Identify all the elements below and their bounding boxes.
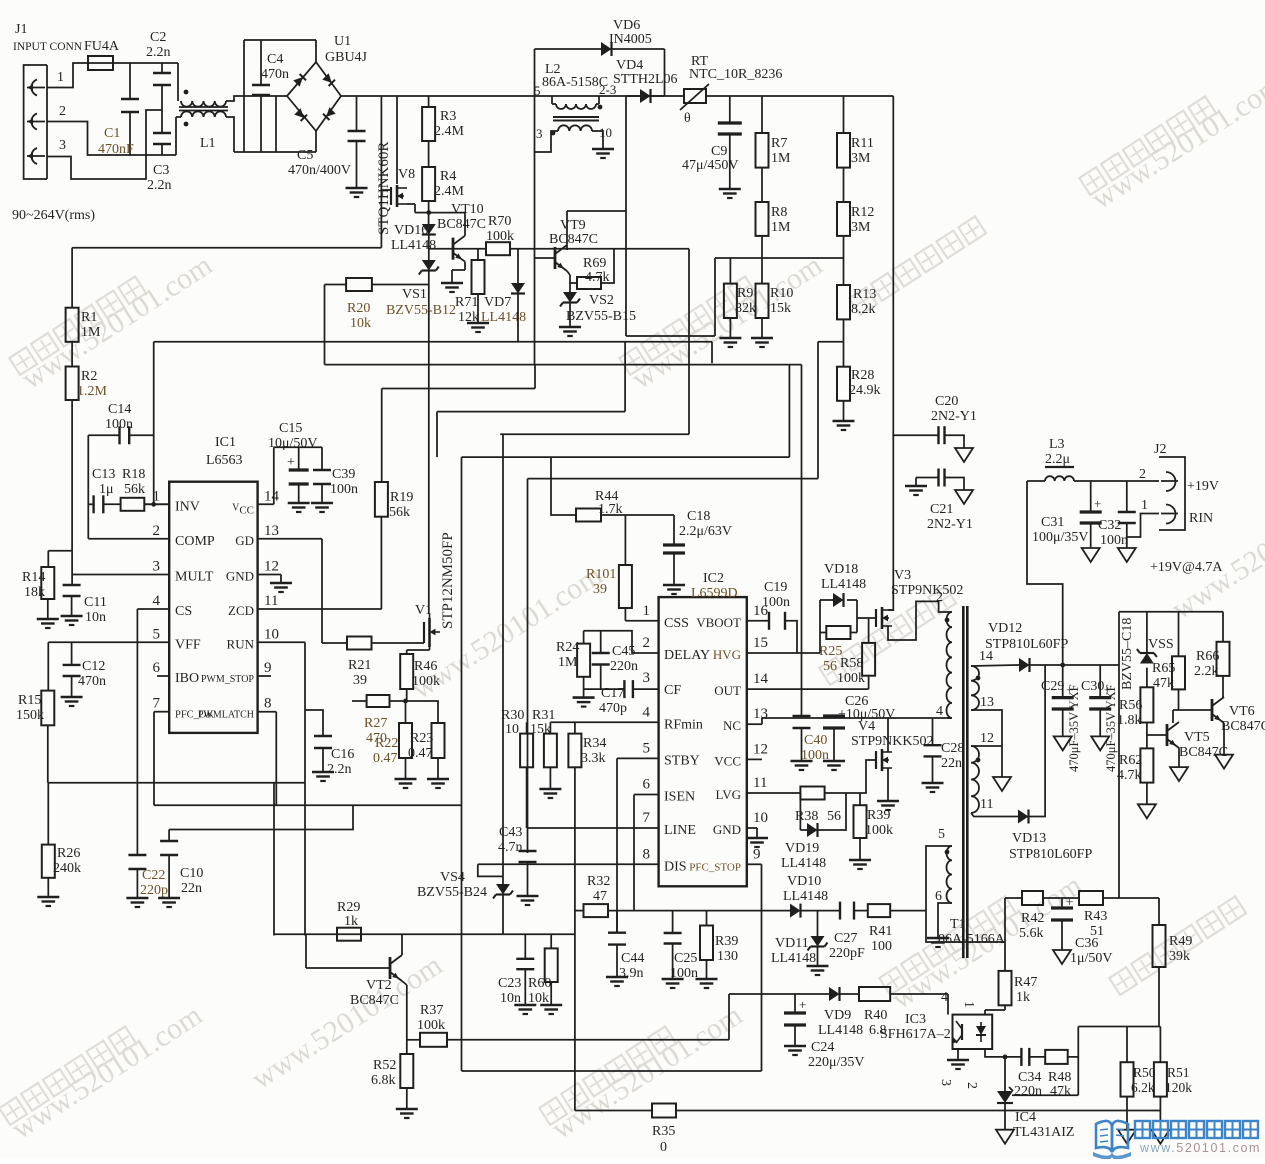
svg-text:470μF–35V YXF: 470μF–35V YXF bbox=[1067, 684, 1081, 772]
svg-text:130: 130 bbox=[717, 949, 738, 964]
wire R101 top bbox=[624, 515, 626, 565]
capacitor C11 bbox=[63, 585, 81, 596]
wire R50 bottom bbox=[1126, 1097, 1128, 1130]
svg-text:NTC_10R_8236: NTC_10R_8236 bbox=[689, 67, 782, 82]
capacitor C25 bbox=[664, 933, 682, 944]
wire R56-R62 junction bbox=[1146, 735, 1148, 748]
wire R21 row bbox=[322, 642, 347, 644]
svg-text:STP9NK502: STP9NK502 bbox=[891, 583, 963, 598]
ground below R71 bbox=[467, 323, 489, 332]
svg-text:www.520101.com: www.520101.com bbox=[1139, 1141, 1261, 1155]
wire STBY pin5 bbox=[617, 757, 659, 759]
wire zener to R56 bbox=[1146, 668, 1148, 688]
ground below C22 bbox=[126, 898, 148, 907]
wire x789.4 vertical bbox=[788, 365, 790, 458]
wire CS pin4 bbox=[137, 608, 169, 610]
svg-text:C44: C44 bbox=[621, 951, 644, 966]
wire VS4 zener stem bbox=[502, 876, 504, 884]
wire V4 source bbox=[887, 768, 889, 801]
wire IC3 pin2 bbox=[985, 1049, 1005, 1057]
svg-text:R20: R20 bbox=[347, 301, 370, 316]
wire VD11 stem bbox=[817, 911, 819, 936]
svg-text:56: 56 bbox=[823, 659, 837, 674]
svg-text:VT2: VT2 bbox=[366, 978, 392, 993]
wire R49 stem bbox=[1158, 898, 1160, 925]
capacitor C39 lead bottom bbox=[321, 484, 323, 503]
ground below VS2 bbox=[559, 327, 581, 336]
capacitor C24 bbox=[784, 1013, 806, 1025]
svg-text:3M: 3M bbox=[851, 220, 871, 235]
wire VT2 emitter bbox=[402, 981, 407, 985]
svg-text:5: 5 bbox=[153, 626, 161, 642]
wire C21 right bbox=[945, 478, 965, 491]
svg-text:220p: 220p bbox=[140, 883, 168, 898]
transformer L2 dot primary bbox=[598, 105, 603, 110]
resistor R1 bbox=[66, 308, 79, 342]
wire x801.5 down to C40 bbox=[801, 365, 803, 716]
svg-text:C2: C2 bbox=[150, 30, 166, 45]
wire VS4 bottom bbox=[502, 895, 504, 935]
capacitor C5 lead bbox=[356, 96, 358, 131]
ground below C44 bbox=[606, 977, 628, 986]
capacitor C36 bbox=[1051, 908, 1073, 920]
svg-text:470μF–35V YXF: 470μF–35V YXF bbox=[1104, 684, 1118, 772]
svg-text:8: 8 bbox=[643, 846, 651, 862]
svg-text:11: 11 bbox=[264, 593, 278, 609]
svg-text:C43: C43 bbox=[499, 825, 522, 840]
svg-text:DELAY: DELAY bbox=[664, 648, 710, 663]
svg-text:LL4148: LL4148 bbox=[821, 577, 866, 592]
bridge U1 top corner lead bbox=[315, 40, 317, 62]
wire x306 bbox=[305, 934, 307, 968]
wire C34 to R48 bbox=[1029, 1056, 1045, 1058]
svg-text:15: 15 bbox=[753, 635, 768, 651]
capacitor C45 top lead bbox=[600, 631, 602, 653]
svg-text:+: + bbox=[287, 455, 295, 470]
wire R19 bottom bbox=[380, 517, 382, 609]
wire R65 bottom bbox=[1178, 689, 1180, 710]
svg-text:1k: 1k bbox=[1016, 990, 1030, 1005]
ground below VT10 bbox=[441, 283, 463, 292]
wire VT10 collector bbox=[464, 213, 466, 236]
capacitor C32 stem bbox=[1126, 481, 1128, 512]
svg-text:CSS: CSS bbox=[664, 616, 689, 631]
capacitor C43 bbox=[519, 851, 537, 862]
wire C19 right bbox=[785, 621, 797, 653]
diode VD7 lead top bbox=[517, 249, 519, 283]
svg-text:R21: R21 bbox=[348, 658, 371, 673]
inductor L3 bbox=[1045, 476, 1074, 481]
capacitor C29 lead bottom bbox=[1062, 709, 1064, 736]
svg-text:100n: 100n bbox=[1100, 533, 1128, 548]
connector J1 body bbox=[24, 65, 47, 179]
wire RFmin pin4 bbox=[550, 721, 658, 723]
svg-text:240k: 240k bbox=[53, 861, 81, 876]
wire VT2 collector bbox=[401, 934, 403, 955]
wire V8 drain bbox=[396, 96, 398, 184]
svg-text:C45: C45 bbox=[612, 644, 635, 659]
svg-text:1k: 1k bbox=[344, 914, 358, 929]
svg-text:C29: C29 bbox=[1041, 679, 1064, 694]
svg-text:220pF: 220pF bbox=[829, 946, 865, 961]
ground below C40 bbox=[791, 761, 813, 770]
junction pin1 node bbox=[151, 502, 156, 507]
wire R60 top bbox=[550, 934, 552, 948]
svg-text:2.2n: 2.2n bbox=[327, 762, 352, 777]
wire VD4 anode bbox=[626, 95, 640, 97]
svg-text:RUN: RUN bbox=[227, 636, 255, 651]
wire VCC pin12 stub bbox=[747, 758, 762, 760]
svg-text:0.47: 0.47 bbox=[373, 751, 398, 766]
resistor R40 bbox=[859, 987, 890, 1001]
svg-text:R40: R40 bbox=[864, 1008, 887, 1023]
svg-text:13: 13 bbox=[980, 695, 994, 710]
wire GD pin13 bbox=[258, 538, 322, 540]
svg-text:10: 10 bbox=[264, 626, 279, 642]
svg-text:R41: R41 bbox=[869, 924, 892, 939]
ground below C25 bbox=[662, 979, 684, 988]
choke L1 top dot bbox=[184, 90, 189, 95]
wire stair y388.5 bbox=[382, 388, 535, 390]
svg-text:100n: 100n bbox=[105, 417, 133, 432]
wire R1 top bbox=[71, 248, 73, 308]
svg-text:ZCD: ZCD bbox=[228, 603, 254, 618]
choke L1 bottom winding bbox=[181, 111, 226, 117]
ground below R31 bbox=[539, 789, 561, 798]
resistor R101 bbox=[619, 565, 632, 608]
svg-text:10: 10 bbox=[505, 722, 519, 737]
wire COMP loop left vertical bbox=[87, 435, 89, 539]
capacitor C45 bottom lead bbox=[600, 665, 602, 690]
svg-text:R28: R28 bbox=[851, 368, 874, 383]
wire R30 bottom to LINE bbox=[526, 767, 528, 828]
wire vertical x818 bbox=[817, 342, 819, 479]
resistor R20 bbox=[346, 278, 372, 291]
IC U2 L6599D box bbox=[659, 597, 747, 886]
wire VD16 to VS1 bbox=[428, 235, 430, 261]
svg-text:INV: INV bbox=[175, 499, 200, 514]
svg-text:56k: 56k bbox=[389, 505, 410, 520]
ground below C43 bbox=[517, 896, 539, 905]
chassis ground below VT6 bbox=[1215, 755, 1233, 769]
svg-text:BC847C: BC847C bbox=[1179, 745, 1228, 760]
wire R66 bottom bbox=[1222, 676, 1224, 697]
ground C21 stem bbox=[915, 478, 917, 487]
wire R30 top bbox=[526, 722, 528, 733]
wire VCC top row bbox=[274, 446, 322, 448]
connector J1 plug pin 3 bbox=[31, 148, 37, 164]
wire R20 row bbox=[325, 284, 347, 286]
wire ISEN pin6 bbox=[634, 794, 659, 796]
svg-text:C32: C32 bbox=[1098, 518, 1121, 533]
svg-text:BC847C: BC847C bbox=[350, 993, 399, 1008]
junction R46/R27 bbox=[403, 699, 408, 704]
svg-text:39: 39 bbox=[353, 673, 367, 688]
wire C29 stem bbox=[1062, 665, 1064, 698]
ground below V4 bbox=[877, 801, 899, 810]
wire IC3 pin3 gnd bbox=[957, 1049, 959, 1060]
svg-text:C13: C13 bbox=[92, 467, 115, 482]
wire node row y258 bbox=[715, 257, 844, 259]
capacitor C34 bbox=[1021, 1048, 1029, 1066]
svg-text:V4: V4 bbox=[858, 719, 875, 734]
svg-text:U1: U1 bbox=[334, 34, 351, 49]
chassis ground below R62 bbox=[1138, 804, 1156, 818]
svg-text:2: 2 bbox=[643, 635, 651, 651]
svg-text:IBO: IBO bbox=[175, 671, 199, 686]
transformer T1 core bbox=[962, 606, 965, 958]
svg-text:CF: CF bbox=[664, 683, 681, 698]
wire x729 up bbox=[728, 994, 730, 1040]
transformer L2 primary winding bbox=[556, 104, 596, 109]
wire T1 pin6 bbox=[938, 903, 952, 938]
wire C16 top bbox=[305, 710, 323, 736]
svg-text:STBY: STBY bbox=[664, 753, 700, 768]
chassis ground below R50 bbox=[1118, 1130, 1136, 1144]
svg-text:R2: R2 bbox=[81, 369, 97, 384]
wire R22 top bbox=[405, 701, 407, 723]
svg-text:IC3: IC3 bbox=[905, 1012, 926, 1027]
svg-text:+19V: +19V bbox=[1187, 479, 1219, 494]
svg-text:1M: 1M bbox=[81, 325, 101, 340]
wire C44 stem bbox=[616, 911, 618, 933]
capacitor C22 bbox=[128, 855, 146, 869]
ground below R24 bbox=[573, 698, 595, 707]
capacitor C20 bbox=[939, 426, 945, 444]
svg-text:13: 13 bbox=[264, 523, 279, 539]
svg-text:C27: C27 bbox=[834, 931, 857, 946]
wire C28 stem bbox=[932, 718, 934, 745]
svg-text:R23: R23 bbox=[410, 731, 433, 746]
wire VT10 base row bbox=[429, 248, 486, 250]
wire GND pin12 bbox=[258, 574, 281, 576]
resistor R9 lead bottom bbox=[729, 318, 731, 338]
wire CF loop bottom bbox=[584, 688, 625, 690]
ground below C5 bbox=[346, 188, 368, 197]
svg-text:R71: R71 bbox=[455, 295, 478, 310]
svg-text:6: 6 bbox=[935, 889, 942, 904]
ground below R52 bbox=[396, 1109, 418, 1118]
capacitor C26 lead bottom bbox=[833, 728, 835, 761]
resistor R58 bbox=[862, 643, 875, 676]
svg-text:220n: 220n bbox=[1014, 1084, 1042, 1099]
wire C13 to R18 bbox=[103, 503, 120, 505]
capacitor C1 lead bottom bbox=[129, 112, 131, 155]
svg-text:LVG: LVG bbox=[715, 787, 741, 802]
svg-text:90~264V(rms): 90~264V(rms) bbox=[12, 208, 95, 223]
svg-text:CS: CS bbox=[175, 604, 192, 619]
diode VD10 bbox=[790, 904, 801, 918]
ground below C39 bbox=[311, 503, 333, 512]
resistor R29 bbox=[337, 928, 361, 941]
wire C10 top bbox=[168, 830, 170, 842]
transformer L2 secondary winding bbox=[558, 125, 592, 131]
ground below C24 bbox=[784, 1046, 806, 1055]
ground below C28 bbox=[922, 783, 944, 792]
wire y994 row bbox=[729, 993, 790, 995]
bridge U1 bottom corner lead bbox=[315, 131, 317, 152]
resistor R13 bbox=[837, 285, 850, 319]
svg-text:3: 3 bbox=[59, 138, 66, 153]
resistor R8 bbox=[756, 202, 769, 236]
svg-text:C14: C14 bbox=[108, 402, 131, 417]
diode VD4 bbox=[640, 89, 651, 103]
svg-text:C39: C39 bbox=[332, 467, 355, 482]
svg-text:39: 39 bbox=[593, 582, 607, 597]
resistor R71 lead top bbox=[477, 249, 479, 260]
svg-text:L6599D: L6599D bbox=[691, 586, 738, 601]
svg-text:R43: R43 bbox=[1084, 909, 1107, 924]
wire L1 top to bridge bbox=[226, 96, 287, 101]
svg-text:2: 2 bbox=[59, 104, 66, 119]
svg-text:1: 1 bbox=[57, 70, 64, 85]
choke L1 top winding bbox=[181, 101, 226, 107]
chassis ground C31 bbox=[1082, 548, 1100, 562]
wire vertical x715 bbox=[714, 258, 716, 336]
wire R15 bottom bbox=[47, 725, 49, 782]
svg-text:100k: 100k bbox=[412, 674, 440, 689]
resistor R10 bbox=[756, 284, 769, 318]
svg-text:C15: C15 bbox=[279, 421, 302, 436]
resistor R23 bbox=[432, 723, 445, 758]
wire VD6 branch top right bbox=[611, 48, 665, 50]
ground below T1 pin6 bbox=[927, 938, 949, 947]
wire R20 right bbox=[372, 284, 429, 286]
svg-text:L6563: L6563 bbox=[206, 453, 243, 468]
transistor VT2 bbox=[390, 955, 402, 981]
capacitor C4 lead bbox=[260, 40, 262, 85]
svg-text:47: 47 bbox=[593, 889, 607, 904]
wire y782.7 long bbox=[48, 782, 305, 784]
wire HV rail after RT bbox=[705, 95, 893, 97]
svg-text:J1: J1 bbox=[15, 22, 27, 37]
diode VD7 lead bottom bbox=[517, 294, 519, 342]
svg-text:ISEN: ISEN bbox=[664, 790, 695, 805]
svg-text:5: 5 bbox=[534, 83, 541, 98]
svg-text:LL4148: LL4148 bbox=[771, 951, 816, 966]
resistor R48 bbox=[1045, 1050, 1068, 1064]
resistor R66 bbox=[1217, 642, 1230, 676]
wire C12 top bbox=[71, 642, 73, 665]
wire y910.6 row bbox=[608, 910, 790, 912]
svg-text:1M: 1M bbox=[558, 655, 578, 670]
capacitor C9 lead top bbox=[729, 96, 731, 123]
capacitor C2 lead bottom bbox=[161, 85, 163, 133]
svg-text:82k: 82k bbox=[735, 301, 756, 316]
svg-text:R26: R26 bbox=[57, 846, 80, 861]
svg-text:47μ/450V: 47μ/450V bbox=[682, 158, 739, 173]
wire R7 to R8 bbox=[761, 168, 763, 202]
resistor R71 lead bottom bbox=[477, 294, 479, 323]
wire R13 bottom bbox=[843, 319, 845, 341]
wire R44 left bbox=[551, 457, 576, 515]
wire R58 bottom bbox=[868, 676, 870, 689]
wire bridge bottom rail bbox=[234, 151, 316, 153]
wire VS4 top jog bbox=[478, 864, 503, 876]
svg-text:GND: GND bbox=[226, 569, 254, 584]
wire R23 bottom bbox=[437, 758, 439, 779]
wire R39(100k) top bbox=[859, 793, 861, 805]
svg-text:R56: R56 bbox=[1119, 698, 1142, 713]
wire vertical x626 from VD4 bbox=[625, 96, 627, 336]
wire C20 row bbox=[893, 434, 938, 436]
wire R66 stem bbox=[1222, 612, 1224, 642]
svg-text:R101: R101 bbox=[586, 567, 616, 582]
wire pin11 row bbox=[971, 813, 1018, 817]
capacitor C26 bbox=[823, 716, 845, 728]
wire LVG pin11 bbox=[747, 792, 801, 794]
diode VD9 bbox=[829, 987, 840, 1001]
wire R4 bottom bbox=[428, 201, 430, 224]
wire x48.3 vertical VFF bbox=[47, 642, 49, 690]
wire R42-R43 bbox=[1043, 897, 1079, 899]
wire T1 pin5 bbox=[926, 846, 1005, 942]
resistor R52 bbox=[400, 1054, 413, 1088]
wire R25 leads bbox=[820, 632, 826, 634]
svg-text:SFH617A–2: SFH617A–2 bbox=[880, 1027, 951, 1042]
wire IBO pin6 stub bbox=[157, 675, 169, 677]
capacitor C30 lead bottom bbox=[1099, 709, 1101, 736]
wire x634 down bbox=[633, 795, 635, 911]
chassis ground C30 bbox=[1091, 736, 1109, 750]
svg-text:R62: R62 bbox=[1119, 753, 1142, 768]
svg-text:L3: L3 bbox=[1049, 437, 1065, 452]
svg-text:R19: R19 bbox=[390, 490, 413, 505]
transistor VT5 bbox=[1167, 722, 1179, 748]
svg-text:86A-5166A: 86A-5166A bbox=[938, 932, 1006, 947]
wire stair y341.8 bbox=[154, 341, 712, 343]
svg-text:8.2k: 8.2k bbox=[851, 302, 876, 317]
wire GND down bbox=[280, 575, 282, 584]
choke L1 bottom dot bbox=[184, 122, 189, 127]
svg-text:R27: R27 bbox=[364, 716, 387, 731]
svg-text:BZV55-B12: BZV55-B12 bbox=[386, 303, 456, 318]
svg-text:BZV55–C18: BZV55–C18 bbox=[1120, 618, 1135, 690]
svg-text:VS2: VS2 bbox=[589, 293, 614, 308]
svg-text:L1: L1 bbox=[200, 136, 216, 151]
capacitor C10 lead bottom bbox=[168, 855, 170, 898]
chassis ground C20 bbox=[955, 448, 973, 462]
svg-text:1μ: 1μ bbox=[99, 482, 114, 497]
mosfet V8 bbox=[391, 185, 407, 207]
svg-text:3.9n: 3.9n bbox=[619, 966, 644, 981]
wire VD12 node up to L3 bbox=[1027, 481, 1063, 665]
wire GND stem bbox=[756, 828, 758, 838]
capacitor C45 bbox=[592, 653, 610, 665]
resistor R26 bbox=[42, 845, 55, 878]
ground below C18 bbox=[663, 585, 685, 594]
wire V3 drain bbox=[888, 609, 893, 611]
svg-text:0: 0 bbox=[660, 1140, 667, 1155]
wire R46 bottom bbox=[406, 689, 408, 701]
resistor R56 bbox=[1140, 687, 1153, 722]
svg-text:10: 10 bbox=[599, 125, 612, 140]
capacitor C39 bbox=[313, 470, 331, 484]
resistor R11 bbox=[837, 133, 850, 168]
capacitor C13 bbox=[94, 495, 104, 513]
resistor R11 lead top bbox=[843, 96, 845, 133]
wire VD6 branch right vertical bbox=[664, 49, 666, 96]
svg-text:C34: C34 bbox=[1018, 1070, 1041, 1085]
svg-text:RIN: RIN bbox=[1189, 511, 1213, 526]
wire VT6 emitter bbox=[1223, 723, 1225, 755]
wire bridge top rail bbox=[244, 39, 316, 41]
wire fuse to L1 top bbox=[113, 62, 178, 64]
capacitor C27 bbox=[840, 902, 854, 920]
wire C30 stem bbox=[1099, 665, 1101, 698]
svg-text:56: 56 bbox=[827, 809, 841, 824]
wire R69 left lead bbox=[570, 282, 577, 284]
